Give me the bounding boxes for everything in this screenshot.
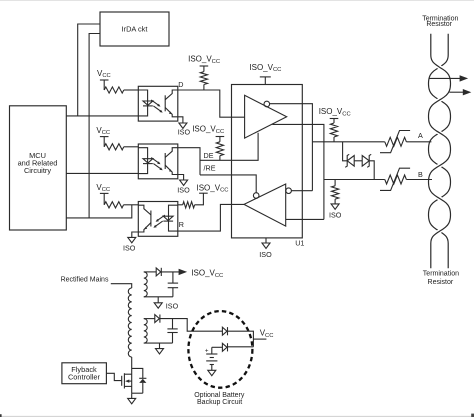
wire resistor to opto2 anode bbox=[124, 146, 139, 148]
svg-text:ISO: ISO bbox=[178, 127, 191, 136]
ISO ground (opto3) bbox=[128, 237, 136, 242]
node D wire bbox=[178, 90, 245, 117]
transformer primary winding bbox=[128, 288, 131, 357]
svg-text:Termination: Termination bbox=[423, 271, 459, 278]
svg-text:Resistor: Resistor bbox=[426, 21, 452, 28]
wire opto2 collector to DE//RE node bbox=[178, 148, 200, 175]
wire pull-up to opto3 collector bbox=[124, 204, 139, 206]
IrDA ckt block bbox=[100, 12, 169, 46]
arrow tap 1 bbox=[429, 77, 461, 79]
body diode (Q1) bbox=[132, 368, 143, 378]
transformer secondary winding 2 bbox=[144, 319, 147, 344]
optocoupler U3 (DE//RE channel) bbox=[138, 144, 178, 179]
rectifier diode D1 (ISO_Vcc) bbox=[144, 271, 156, 273]
wire driver non-inverting out to node B bbox=[272, 124, 324, 219]
wire opto3 emitter to ISO ground bbox=[132, 232, 139, 237]
resistor Vcc-opto1 LED bbox=[104, 87, 124, 93]
diode D3 (main to Vcc) bbox=[222, 327, 227, 335]
ISO ground (secondary1) bbox=[157, 297, 159, 303]
wire MCU RXD to opto3 node bbox=[66, 205, 132, 218]
ISO ground (bias B) bbox=[331, 204, 339, 209]
wire IrDA to opto3 collector line bbox=[89, 34, 100, 218]
wire MCU to opto1 cathode bbox=[66, 115, 138, 117]
optocoupler U2 (D channel) bbox=[138, 86, 178, 121]
surge varistor on B bbox=[385, 175, 407, 184]
resistor bias A bbox=[330, 123, 337, 137]
svg-text:Backup Circuit: Backup Circuit bbox=[197, 399, 242, 406]
gate drive wire bbox=[106, 373, 121, 380]
driver inverting output bubble bbox=[264, 101, 270, 107]
filter capacitor C2 bbox=[172, 319, 174, 329]
MCU and related circuitry block bbox=[10, 106, 67, 230]
resistor pull-up R (ISO side) bbox=[183, 202, 195, 208]
wire node A to receiver inverting input bbox=[291, 190, 312, 192]
svg-text:IrDA ckt: IrDA ckt bbox=[122, 25, 148, 34]
wire MCU to opto2 cathode bbox=[66, 172, 138, 174]
svg-text:Rectified Mains: Rectified Mains bbox=[61, 276, 109, 283]
wire secondary1 return bbox=[144, 296, 173, 298]
node R wire from receiver bbox=[178, 204, 244, 231]
twisted pair cable strand 1 (over) bbox=[429, 34, 451, 269]
optocoupler U4 (R channel, mirrored) bbox=[138, 202, 178, 237]
DE wire bbox=[200, 133, 258, 161]
ISO_Vcc output arrow bbox=[161, 271, 179, 273]
wire resistor to opto1 anode bbox=[124, 89, 139, 91]
wire secondary2 return bbox=[144, 342, 173, 344]
bus line A bbox=[312, 141, 384, 143]
wire IrDA to opto1 cathode line bbox=[78, 24, 100, 116]
receiver inverting input bubble bbox=[286, 188, 292, 194]
flyback controller block bbox=[62, 363, 107, 384]
svg-text:U1: U1 bbox=[295, 238, 304, 247]
resistor Vcc-opto2 LED bbox=[104, 144, 124, 150]
svg-text:A: A bbox=[418, 131, 423, 140]
ground (battery) bbox=[208, 370, 216, 375]
svg-text:ISO: ISO bbox=[123, 244, 136, 253]
wire D2 to battery backup diodes bbox=[160, 319, 223, 332]
wire node B to receiver non-inverting input bbox=[286, 218, 324, 220]
wire opto1 emitter to ISO ground bbox=[178, 117, 183, 123]
svg-text:ISO: ISO bbox=[259, 250, 272, 259]
ISO ground (opto1) bbox=[179, 123, 187, 128]
transformer secondary winding 1 bbox=[144, 272, 147, 297]
wire mains to transformer primary bbox=[111, 284, 132, 288]
ground (secondary2) bbox=[159, 343, 161, 349]
svg-text:ISO: ISO bbox=[177, 186, 190, 195]
svg-text:Resistor: Resistor bbox=[428, 279, 454, 286]
resistor pull-up DE bbox=[219, 137, 221, 142]
driver amplifier (in U1) bbox=[245, 95, 287, 138]
receiver amplifier (in U1) bbox=[244, 184, 286, 226]
wire driver inverting out to node A bbox=[269, 104, 312, 191]
filter capacitor C1 bbox=[172, 272, 174, 283]
receiver enable bubble bbox=[253, 193, 259, 199]
svg-text:Circuitry: Circuitry bbox=[24, 166, 51, 175]
svg-text:D: D bbox=[178, 80, 183, 89]
/RE wire bbox=[200, 175, 256, 193]
svg-text:R: R bbox=[179, 220, 184, 229]
rectifier diode D2 (Vcc) bbox=[144, 318, 155, 320]
wire opto3 LED anode w/ resistor to ISO_Vcc bbox=[178, 204, 183, 206]
optional battery backup circuit dashed boundary bbox=[188, 311, 252, 388]
svg-text:/RE: /RE bbox=[204, 164, 216, 173]
bus line B bbox=[324, 179, 385, 181]
transient suppressor zener pair A-B bbox=[343, 142, 348, 161]
svg-text:ISO: ISO bbox=[329, 211, 342, 220]
ground (Q1 source) bbox=[131, 393, 133, 398]
wire opto2 emitter to ISO ground bbox=[178, 175, 184, 181]
MOSFET Q1 bbox=[121, 376, 123, 386]
ISO ground (U1) bbox=[265, 238, 267, 243]
svg-text:B: B bbox=[418, 170, 423, 179]
twisted pair cable strand 2 (under) bbox=[429, 34, 451, 269]
resistor pull-up D bbox=[203, 66, 205, 72]
surge varistor on A bbox=[385, 137, 407, 146]
svg-text:ISO: ISO bbox=[166, 301, 179, 310]
svg-text:Controller: Controller bbox=[68, 373, 101, 382]
battery B1 bbox=[211, 347, 213, 354]
Vcc output tap bbox=[253, 338, 266, 340]
transceiver U1 box bbox=[232, 85, 303, 238]
diode D4 (battery to Vcc) bbox=[212, 346, 223, 348]
svg-text:+: + bbox=[205, 348, 209, 355]
resistor bias B to ISO ground bbox=[334, 180, 336, 186]
arrow tap 2 bbox=[449, 91, 463, 93]
svg-text:DE: DE bbox=[204, 151, 214, 160]
resistor Vcc pull-up R (MCU side) bbox=[104, 202, 123, 208]
ISO ground (opto2) bbox=[180, 180, 188, 185]
